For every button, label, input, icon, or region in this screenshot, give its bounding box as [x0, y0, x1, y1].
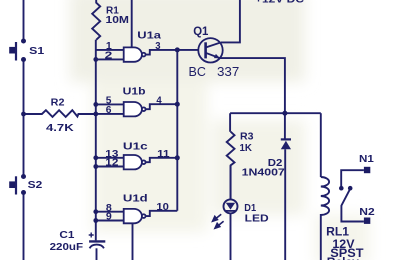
svg-text:11: 11: [157, 149, 170, 160]
svg-text:N1: N1: [359, 153, 374, 165]
svg-text:10M: 10M: [106, 14, 130, 26]
svg-text:4.7K: 4.7K: [46, 122, 74, 134]
svg-text:1K: 1K: [240, 142, 253, 154]
svg-text:1N4007: 1N4007: [242, 167, 285, 179]
svg-text:BC: BC: [189, 65, 206, 79]
svg-text:220uF: 220uF: [50, 241, 84, 253]
svg-text:12: 12: [105, 158, 119, 169]
svg-text:U1a: U1a: [137, 29, 161, 41]
svg-text:R3: R3: [240, 131, 254, 143]
svg-text:RL1: RL1: [326, 227, 350, 239]
svg-text:S1: S1: [29, 45, 44, 57]
svg-text:+12V DC: +12V DC: [255, 0, 304, 5]
svg-text:U1d: U1d: [123, 193, 148, 205]
svg-text:U1c: U1c: [123, 141, 148, 153]
svg-text:S2: S2: [28, 179, 43, 191]
svg-text:N2: N2: [359, 206, 375, 218]
svg-text:R2: R2: [51, 97, 65, 109]
svg-text:3: 3: [155, 41, 161, 52]
svg-text:10: 10: [156, 202, 169, 213]
svg-text:C1: C1: [59, 229, 74, 241]
svg-text:2: 2: [105, 51, 113, 62]
svg-text:U1b: U1b: [123, 85, 146, 97]
svg-text:337: 337: [217, 65, 239, 79]
svg-text:6: 6: [106, 105, 112, 116]
svg-text:LED: LED: [245, 213, 269, 225]
svg-text:Q1: Q1: [193, 26, 209, 38]
svg-text:4: 4: [156, 95, 162, 106]
svg-text:9: 9: [106, 212, 112, 223]
